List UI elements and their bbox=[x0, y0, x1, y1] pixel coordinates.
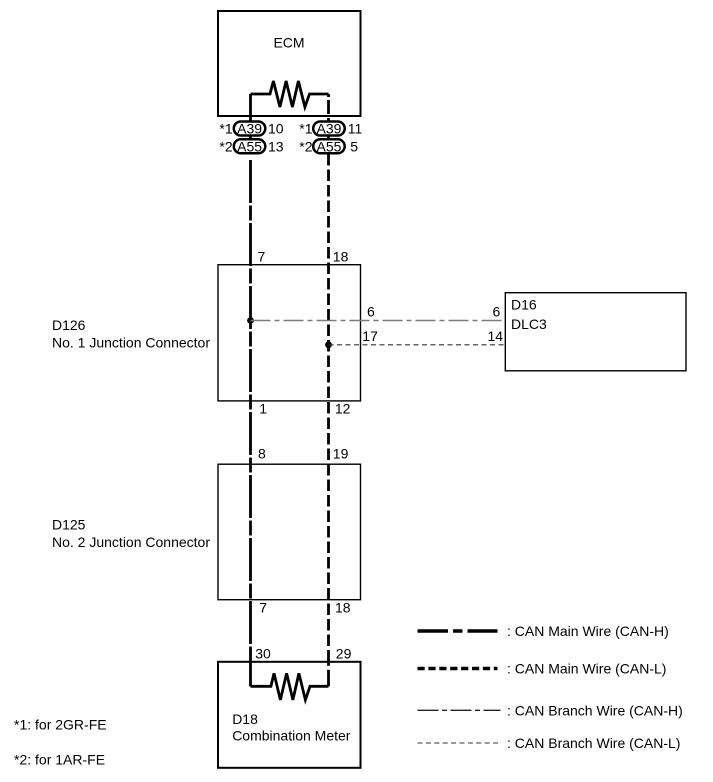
svg-text:D16: D16 bbox=[511, 297, 537, 313]
svg-text:7: 7 bbox=[258, 248, 266, 264]
svg-text:No. 2 Junction Connector: No. 2 Junction Connector bbox=[52, 534, 210, 550]
svg-text:D125: D125 bbox=[52, 517, 86, 533]
D18 Combination Meter label bbox=[232, 711, 351, 743]
pin 14 label (DLC3 side) bbox=[488, 328, 504, 344]
ECM label bbox=[273, 35, 304, 51]
svg-text:*2: for 1AR-FE: *2: for 1AR-FE bbox=[14, 752, 105, 768]
svg-text:7: 7 bbox=[259, 599, 267, 615]
resistor R1 (CAN terminating resistor inside ECM) bbox=[251, 81, 329, 107]
svg-text:6: 6 bbox=[493, 304, 501, 320]
junction node D126 pin 17 (CAN-L tap) bbox=[325, 341, 332, 348]
svg-text:A39: A39 bbox=[317, 121, 342, 137]
svg-text:*1: *1 bbox=[219, 121, 232, 137]
wire between A39 and A55 ovals (right) bbox=[327, 135, 330, 140]
svg-text:*2: *2 bbox=[299, 138, 312, 154]
svg-text:6: 6 bbox=[367, 304, 375, 320]
pin 18 label (D125 bottom) bbox=[335, 599, 351, 615]
wire CAN-H main: D125 pin 7 to D18 pin 30 bbox=[249, 600, 252, 662]
wire ECM left stub (CAN-H) bbox=[249, 94, 252, 122]
legend text: CAN Main Wire (CAN-L) bbox=[507, 661, 666, 677]
svg-text:18: 18 bbox=[335, 599, 351, 615]
junction connector D125 box bbox=[218, 464, 361, 600]
svg-text:: CAN Branch Wire (CAN-L): : CAN Branch Wire (CAN-L) bbox=[507, 735, 680, 751]
D126 label bbox=[52, 317, 210, 350]
legend sample: CAN Branch Wire (CAN-H) bbox=[418, 709, 501, 711]
svg-text:19: 19 bbox=[333, 445, 349, 461]
pin 18 label (D126 top) bbox=[333, 248, 349, 264]
connector A39 pin 10 (*1) bbox=[219, 121, 283, 137]
svg-text:18: 18 bbox=[333, 248, 349, 264]
D125 label bbox=[52, 517, 210, 551]
D16 DLC3 label bbox=[511, 297, 547, 332]
wire CAN-L branch: D126 pin 17 to DLC3 pin 14 bbox=[329, 344, 506, 346]
svg-text:13: 13 bbox=[268, 138, 284, 154]
svg-text:*1: *1 bbox=[299, 121, 312, 137]
note *1 bbox=[14, 717, 107, 733]
svg-text:11: 11 bbox=[348, 121, 363, 137]
svg-text:1: 1 bbox=[259, 400, 267, 416]
svg-text:ECM: ECM bbox=[273, 35, 304, 51]
wire CAN-L main through D126 bbox=[327, 265, 330, 401]
connector A55 pin 13 (*2) bbox=[219, 138, 283, 154]
svg-text:8: 8 bbox=[258, 445, 266, 461]
pin 6 label (D126 side) bbox=[367, 304, 375, 320]
wire CAN-H main: D126 pin 1 to D125 pin 8 bbox=[249, 401, 252, 464]
pin 6 label (DLC3 side) bbox=[493, 304, 501, 320]
wire ECM right stub (CAN-L) bbox=[327, 94, 330, 122]
connector A55 pin 5 (*2) bbox=[299, 138, 358, 154]
pin 7 label (D126 top) bbox=[258, 248, 266, 264]
legend text: CAN Branch Wire (CAN-H) bbox=[507, 702, 683, 718]
svg-text:No. 1 Junction Connector: No. 1 Junction Connector bbox=[52, 335, 210, 351]
legend text: CAN Main Wire (CAN-H) bbox=[507, 623, 669, 639]
svg-text:D18: D18 bbox=[232, 711, 258, 727]
svg-text:D126: D126 bbox=[52, 317, 86, 333]
svg-text:29: 29 bbox=[336, 646, 352, 662]
wire D18 left stub (CAN-H) bbox=[249, 662, 252, 687]
wire CAN-H branch: D126 pin 6 to DLC3 pin 6 bbox=[251, 320, 506, 322]
svg-text:Combination Meter: Combination Meter bbox=[232, 727, 351, 743]
junction node D126 pin 6 (CAN-H tap) bbox=[247, 317, 254, 324]
pin 12 label (D126 bottom) bbox=[335, 400, 351, 416]
pin 19 label (D125 top) bbox=[333, 445, 349, 461]
wire CAN-L main: D125 pin 18 to D18 pin 29 bbox=[327, 600, 330, 662]
svg-text:30: 30 bbox=[255, 646, 271, 662]
connector A39 pin 11 (*1) bbox=[299, 121, 362, 137]
ECM U1 box bbox=[218, 11, 361, 116]
wire between A39 and A55 ovals (left) bbox=[249, 135, 252, 140]
combination meter D18 box bbox=[218, 662, 361, 768]
svg-text:*1: for 2GR-FE: *1: for 2GR-FE bbox=[14, 717, 107, 733]
pin 1 label (D126 bottom) bbox=[259, 400, 267, 416]
legend sample: CAN Main Wire (CAN-L) bbox=[418, 667, 498, 670]
resistor R2 (CAN terminating resistor inside D18) bbox=[251, 673, 329, 700]
svg-text:10: 10 bbox=[268, 121, 284, 137]
wire D18 right stub (CAN-L) bbox=[327, 662, 330, 687]
svg-text:A55: A55 bbox=[317, 138, 342, 154]
svg-text:14: 14 bbox=[488, 328, 504, 344]
svg-text:DLC3: DLC3 bbox=[511, 316, 547, 332]
pin 7 label (D125 bottom) bbox=[259, 599, 267, 615]
pin 29 label (D18) bbox=[336, 646, 352, 662]
svg-text:A39: A39 bbox=[237, 121, 262, 137]
svg-text:A55: A55 bbox=[237, 138, 262, 154]
svg-text:5: 5 bbox=[350, 138, 358, 154]
pin 17 label (D126 side) bbox=[362, 328, 378, 344]
wire CAN-H main through D126 bbox=[249, 265, 252, 401]
svg-text:: CAN Main Wire (CAN-L): : CAN Main Wire (CAN-L) bbox=[507, 661, 666, 677]
svg-text:*2: *2 bbox=[219, 138, 232, 154]
wire CAN-H main through D125 bbox=[249, 464, 252, 600]
svg-text:: CAN Branch Wire (CAN-H): : CAN Branch Wire (CAN-H) bbox=[507, 702, 683, 718]
wire CAN-L main: ECM to D126 pin 18 bbox=[327, 154, 330, 265]
note *2 bbox=[14, 752, 105, 768]
wire CAN-L main: D126 pin 12 to D125 pin 19 bbox=[327, 401, 330, 464]
pin 8 label (D125 top) bbox=[258, 445, 266, 461]
legend sample: CAN Branch Wire (CAN-L) bbox=[418, 742, 501, 744]
junction connector D126 box bbox=[218, 265, 361, 401]
svg-text:: CAN Main Wire (CAN-H): : CAN Main Wire (CAN-H) bbox=[507, 623, 669, 639]
wire CAN-L main through D125 bbox=[327, 464, 330, 600]
pin 30 label (D18) bbox=[255, 646, 271, 662]
wire CAN-H main: ECM to D126 pin 7 bbox=[249, 160, 252, 265]
DLC3 connector D16 box bbox=[505, 293, 686, 371]
legend text: CAN Branch Wire (CAN-L) bbox=[507, 735, 680, 751]
svg-text:17: 17 bbox=[362, 328, 378, 344]
legend sample: CAN Main Wire (CAN-H) bbox=[418, 629, 498, 632]
svg-text:12: 12 bbox=[335, 400, 351, 416]
